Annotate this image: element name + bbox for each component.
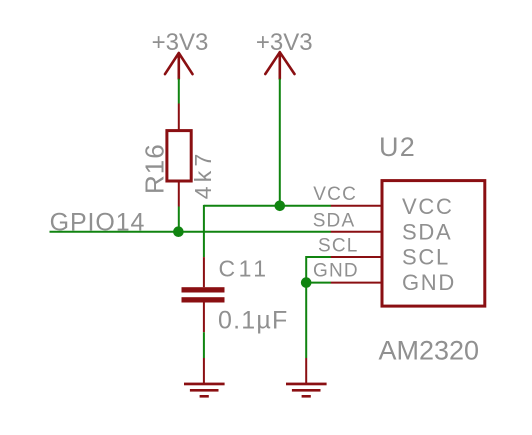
svg-text:SCL: SCL: [402, 245, 450, 270]
svg-text:C11: C11: [219, 256, 270, 282]
wire from R16 to SDA net: [178, 207, 180, 233]
svg-text:0.1µF: 0.1µF: [218, 307, 288, 335]
svg-text:4k7: 4k7: [190, 150, 216, 200]
IC body: [382, 181, 485, 307]
pin VCC: [331, 205, 382, 207]
wire VCC net horizontal: [204, 205, 331, 207]
svg-text:SDA: SDA: [313, 210, 356, 231]
svg-text:AM2320: AM2320: [379, 336, 480, 366]
svg-text:VCC: VCC: [402, 194, 454, 219]
power +3V3 P2 (right): [256, 29, 313, 79]
svg-text:+3V3: +3V3: [256, 29, 313, 56]
ground (right): [286, 358, 327, 398]
svg-text:+3V3: +3V3: [152, 29, 209, 56]
junction at R16 bottom: [173, 226, 184, 237]
svg-text:SCL: SCL: [318, 235, 359, 256]
svg-text:GND: GND: [402, 270, 456, 295]
capacitor C11: [182, 257, 225, 332]
wire GPIO14 / SDA net: [50, 231, 332, 233]
svg-text:R16: R16: [140, 143, 170, 194]
junction VCC: [275, 201, 286, 212]
power +3V3 P1 (left): [152, 29, 209, 79]
svg-text:U2: U2: [379, 132, 416, 162]
junction GND/SCL: [301, 277, 312, 288]
wire VCC to C11: [203, 205, 205, 257]
pin SCL: [331, 256, 382, 258]
svg-text:SDA: SDA: [402, 219, 452, 244]
ground (left): [184, 358, 225, 398]
IC U2 AM2320: [331, 181, 485, 307]
wire GND net: [306, 283, 331, 358]
wire +3V3 P2 down to VCC net: [279, 79, 281, 206]
pin GND: [331, 282, 382, 284]
wire from +3V3 P1 to R16: [178, 79, 180, 104]
pin SDA: [331, 231, 382, 233]
svg-text:GND: GND: [313, 261, 359, 282]
svg-text:VCC: VCC: [313, 184, 357, 205]
resistor R16: [167, 104, 191, 207]
wire SCL corner: [306, 257, 331, 283]
wire C11 to ground: [203, 332, 205, 358]
